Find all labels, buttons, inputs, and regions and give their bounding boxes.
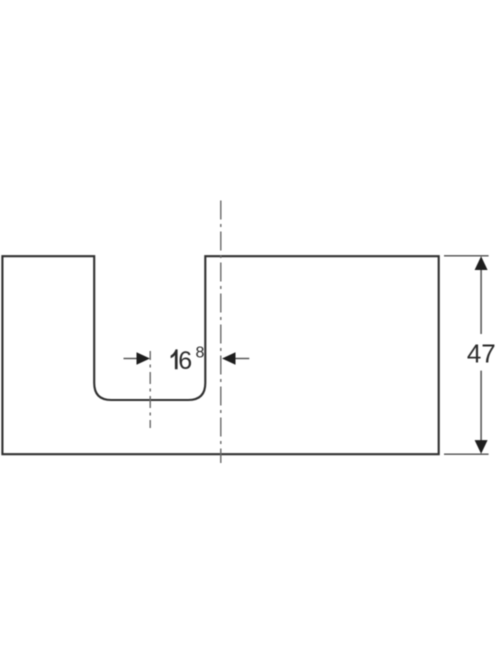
dimension text 16^8: digit 1 drawn as Arial-style path (no foot bar) [171, 349, 178, 369]
main centerline (dash-dot) [220, 201, 222, 464]
dimension 47: bottom arrowhead [475, 440, 488, 454]
cutout centerline (dash-dot) [149, 351, 151, 428]
dimension 16-8: right arrow [235, 358, 249, 360]
dimension 47: top arrowhead [475, 256, 488, 270]
dimension 47: vertical line (gap for text) [480, 269, 482, 334]
svg-text:47: 47 [467, 339, 496, 369]
countertop outline with U-shaped cutout [2, 256, 438, 454]
dimension 16-8: left arrow [124, 358, 138, 360]
svg-text:68: 68 [178, 345, 204, 376]
dimension 47: extension lines [444, 255, 489, 257]
